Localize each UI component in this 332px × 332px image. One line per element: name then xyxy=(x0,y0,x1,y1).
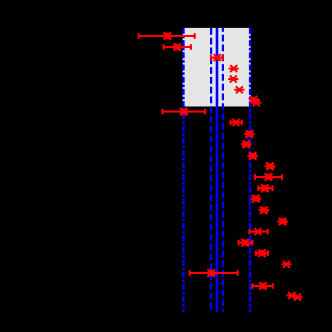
shaded region (axvspan) xyxy=(183,28,251,107)
errorbar P8 xyxy=(162,109,206,115)
point P3 xyxy=(212,54,222,61)
point P21 xyxy=(257,250,267,257)
errorbar P9 xyxy=(230,120,242,126)
point P15 xyxy=(260,185,270,192)
vline solid x=217.0 xyxy=(216,28,219,312)
point P22 xyxy=(206,269,216,276)
point P13 xyxy=(265,163,275,170)
point P4 xyxy=(229,65,239,72)
errorbar P21 xyxy=(255,250,268,256)
point P18 xyxy=(277,218,287,225)
errorbar P19 xyxy=(249,229,268,235)
point P9 xyxy=(231,119,241,126)
point P24 xyxy=(258,282,268,289)
point P7 xyxy=(249,96,259,103)
point P20 xyxy=(240,239,250,246)
vline dash-dot right x=250.1 xyxy=(249,28,251,312)
errorbar P15 xyxy=(258,186,274,192)
errorbar P20 xyxy=(238,240,253,246)
vline dashed x=211.1 xyxy=(210,28,212,312)
point P23 xyxy=(281,261,291,268)
point P16 xyxy=(251,195,261,202)
point P11 xyxy=(241,141,251,148)
point P6 xyxy=(234,86,244,93)
errorbar P3 xyxy=(210,55,223,61)
point P14 xyxy=(263,173,273,180)
point P10 xyxy=(244,130,254,137)
vline dashed x=222.9 xyxy=(222,28,224,312)
point P25 xyxy=(287,292,303,301)
errorbar P1 xyxy=(138,33,195,39)
errorbar P2 xyxy=(163,44,192,50)
point P8 xyxy=(179,108,189,115)
point P17 xyxy=(259,207,269,214)
point P1 xyxy=(162,32,172,39)
point P5 xyxy=(228,76,238,83)
errorbar P22 xyxy=(189,270,238,276)
point P19 xyxy=(253,228,263,235)
errorbar P14 xyxy=(254,174,282,180)
point P12 xyxy=(247,152,257,159)
errorbar P24 xyxy=(252,283,273,289)
vline dash-dot left x=183.5 xyxy=(182,28,184,312)
point P2 xyxy=(172,43,182,50)
